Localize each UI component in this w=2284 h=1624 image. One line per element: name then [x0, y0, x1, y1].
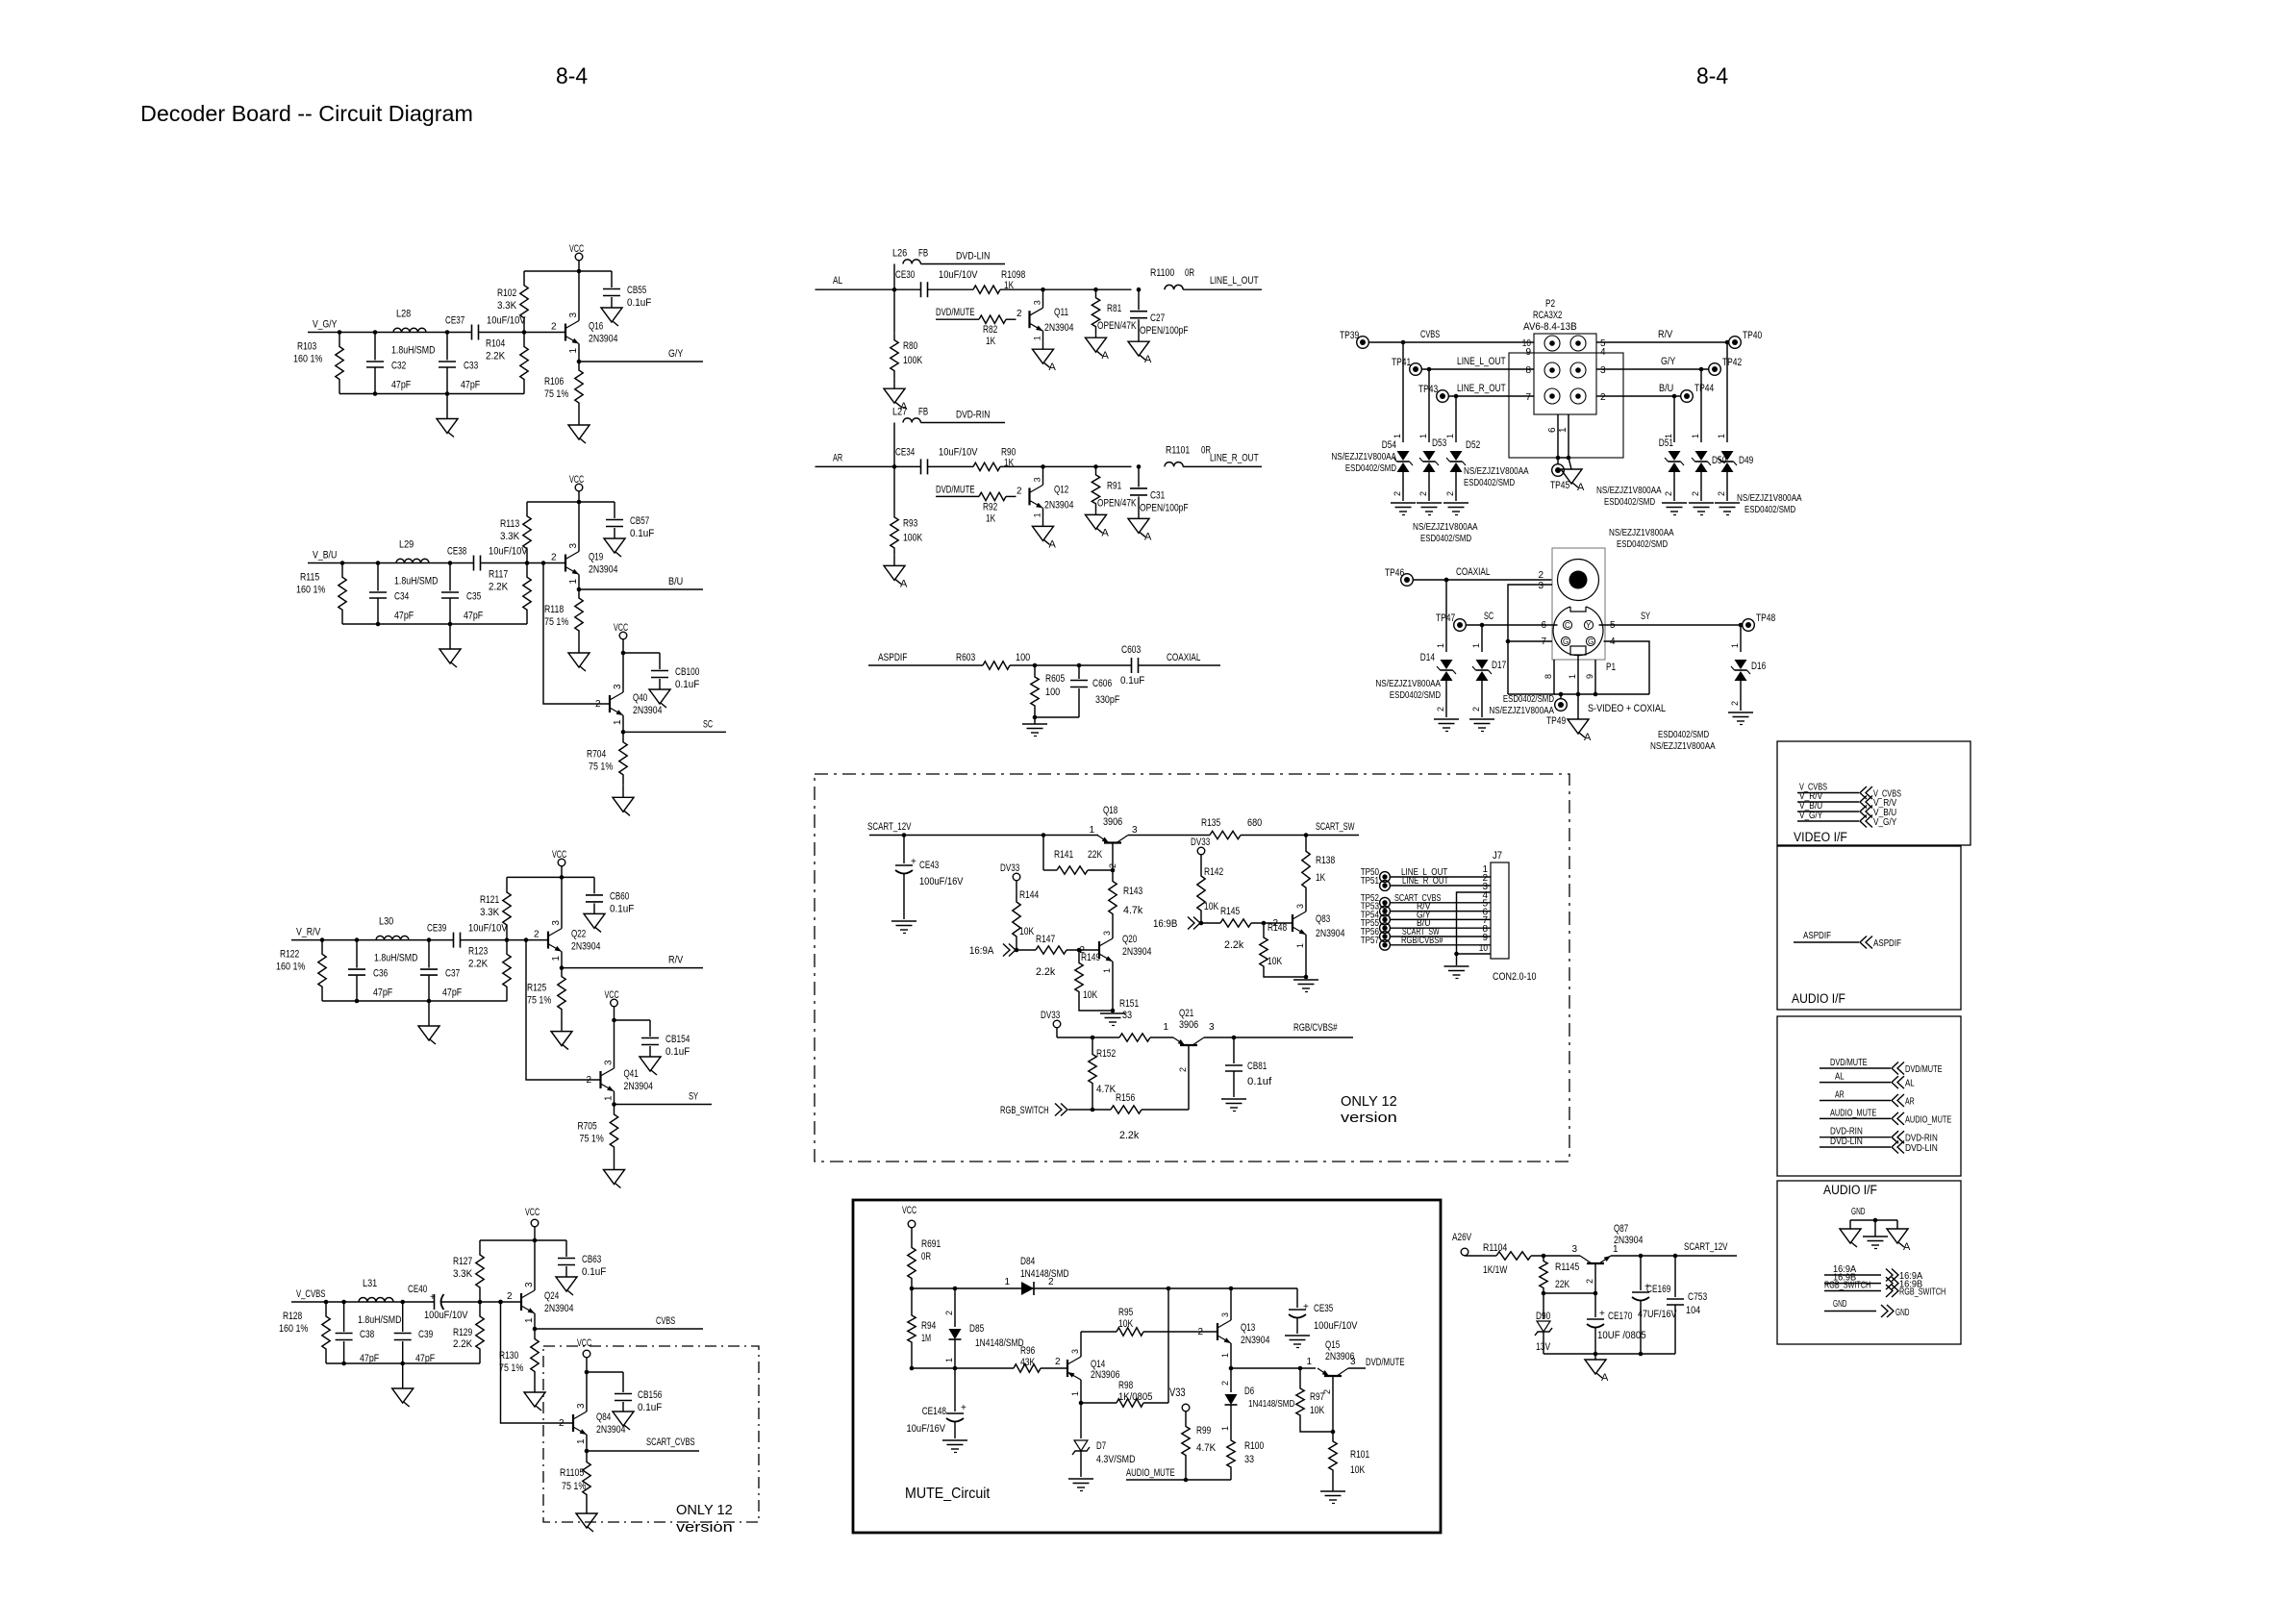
power VCC (Q24) — [525, 1207, 540, 1240]
svg-text:1K/0805: 1K/0805 — [1118, 1391, 1152, 1403]
svg-text:47UF/16V: 47UF/16V — [1638, 1309, 1677, 1320]
svg-text:CE35: CE35 — [1314, 1303, 1333, 1314]
svg-text:A: A — [1049, 538, 1057, 550]
node DVD/MUTE (MUTE out) — [1348, 1357, 1405, 1368]
svg-text:ESD0402/SMD: ESD0402/SMD — [1617, 538, 1668, 550]
box AUDIO I/F (2) — [1777, 1016, 1961, 1176]
svg-text:D50: D50 — [1712, 455, 1726, 466]
svg-text:2N3904: 2N3904 — [1614, 1235, 1643, 1246]
svg-text:CE43: CE43 — [919, 860, 939, 871]
TVS diode D52 — [1443, 394, 1529, 515]
svg-text:2N3904: 2N3904 — [1316, 928, 1344, 939]
svg-text:NS/EZJZ1V800AA: NS/EZJZ1V800AA — [1596, 485, 1662, 496]
svg-text:2: 2 — [1055, 1357, 1061, 1367]
svg-text:C35: C35 — [466, 591, 481, 603]
svg-text:1: 1 — [1306, 1357, 1312, 1367]
svg-text:R106: R106 — [544, 376, 564, 387]
svg-text:2: 2 — [595, 699, 601, 710]
svg-text:R127: R127 — [453, 1256, 472, 1267]
wire VCC rail — [480, 1238, 566, 1243]
svg-text:R130: R130 — [499, 1350, 518, 1362]
resistor R705 — [578, 1105, 618, 1158]
inductor L30 — [374, 916, 418, 964]
port DVD/MUTE — [1820, 1057, 1943, 1075]
ground (Q41 emitter) — [604, 1158, 625, 1188]
svg-text:C31: C31 — [1150, 489, 1165, 501]
diode D84 1N4148/SMD — [1004, 1256, 1068, 1295]
svg-text:R152: R152 — [1096, 1048, 1116, 1060]
svg-text:R149: R149 — [1081, 952, 1100, 963]
svg-text:C753: C753 — [1688, 1291, 1707, 1303]
label ESD0402/SMD (D17) — [1489, 693, 1554, 716]
resistor R156 2.2k — [1111, 1092, 1189, 1141]
ground (analog A) — [1887, 1220, 1911, 1253]
resistor R149 10K — [1075, 950, 1113, 1011]
capacitor C39 — [394, 1302, 436, 1364]
svg-text:C603: C603 — [1121, 644, 1141, 656]
wire base tap to Q41 — [524, 937, 601, 1080]
svg-text:4.7K: 4.7K — [1096, 1084, 1117, 1095]
resistor R147 2.2k — [1036, 934, 1099, 978]
resistor R142 10K — [1197, 863, 1223, 923]
text ONLY 12 version — [676, 1502, 733, 1536]
svg-text:Q16: Q16 — [589, 321, 603, 333]
svg-text:A: A — [900, 578, 908, 589]
ground (SPDIF) — [1022, 717, 1047, 737]
testpoint TP51 / node LINE_R_OUT — [1361, 875, 1491, 890]
ground (regulator) — [1585, 1354, 1609, 1384]
svg-text:1: 1 — [568, 579, 579, 585]
svg-text:Q24: Q24 — [544, 1290, 559, 1302]
svg-text:A: A — [1102, 350, 1110, 362]
svg-text:A: A — [1584, 732, 1592, 743]
svg-text:1: 1 — [1393, 434, 1402, 438]
svg-text:R145: R145 — [1220, 906, 1240, 917]
ground (emitter) — [524, 1382, 545, 1411]
svg-text:47pF: 47pF — [464, 611, 483, 622]
svg-text:D16: D16 — [1751, 661, 1766, 672]
svg-text:V_CVBS: V_CVBS — [296, 1288, 325, 1300]
svg-text:2: 2 — [1445, 491, 1455, 496]
svg-text:DV33: DV33 — [1041, 1010, 1060, 1021]
svg-text:CB60: CB60 — [610, 890, 629, 902]
node AL — [816, 275, 921, 291]
svg-text:2N3904: 2N3904 — [589, 564, 617, 576]
port DVD-RIN — [1820, 1126, 1938, 1144]
svg-text:R129: R129 — [453, 1327, 472, 1338]
page number right — [1696, 63, 1728, 89]
svg-text:CB57: CB57 — [630, 515, 649, 527]
wire to base — [441, 1300, 522, 1305]
svg-text:RGB_SWITCH: RGB_SWITCH — [1824, 1280, 1870, 1291]
transistor Q22 2N3904 — [534, 877, 600, 967]
port V_G/Y — [1797, 810, 1896, 828]
svg-text:16:9A: 16:9A — [969, 945, 994, 957]
svg-text:DVD-LIN: DVD-LIN — [956, 251, 990, 262]
svg-text:C34: C34 — [394, 591, 409, 603]
svg-text:DV33: DV33 — [1191, 837, 1210, 848]
svg-text:R93: R93 — [903, 517, 917, 529]
svg-text:160 1%: 160 1% — [276, 962, 306, 973]
svg-text:GND: GND — [1895, 1307, 1910, 1318]
svg-text:MUTE_Circuit: MUTE_Circuit — [905, 1486, 991, 1502]
svg-text:R141: R141 — [1054, 849, 1073, 861]
label S-VIDEO + COXIAL — [1588, 703, 1666, 714]
svg-text:TP40: TP40 — [1743, 330, 1762, 341]
svg-text:RGB_SWITCH: RGB_SWITCH — [1000, 1105, 1049, 1116]
resistor R91 OPEN/47K — [1092, 464, 1137, 512]
svg-text:COAXIAL: COAXIAL — [1456, 566, 1490, 578]
svg-text:0.1uF: 0.1uF — [582, 1266, 607, 1278]
svg-text:C37: C37 — [445, 968, 460, 980]
svg-text:2: 2 — [1197, 1327, 1203, 1337]
ground (Q83 emitter) — [1293, 975, 1318, 992]
svg-text:2: 2 — [559, 1418, 565, 1429]
svg-text:CE30: CE30 — [895, 269, 915, 281]
power VCC (Q84) — [577, 1337, 591, 1372]
testpoint TP43 / node LINE_R_OUT — [1418, 383, 1534, 402]
svg-text:2: 2 — [1664, 491, 1673, 496]
svg-text:C36: C36 — [373, 968, 388, 980]
transistor Q19 2N3904 — [551, 502, 617, 589]
power V33 — [1169, 1386, 1190, 1425]
testpoint TP55 / node B/U — [1361, 917, 1491, 933]
TVS diode D53 — [1417, 367, 1446, 515]
svg-text:4.7k: 4.7k — [1123, 905, 1143, 916]
svg-text:DVD-RIN: DVD-RIN — [956, 410, 990, 421]
svg-text:DV33: DV33 — [1000, 862, 1019, 874]
svg-text:2N3904: 2N3904 — [571, 941, 600, 953]
transistor Q12 2N3904 — [1030, 464, 1074, 526]
resistor R82 (base) — [936, 307, 1022, 347]
svg-text:R143: R143 — [1123, 886, 1142, 897]
svg-text:1: 1 — [568, 348, 579, 354]
svg-text:R94: R94 — [921, 1320, 936, 1332]
node DVD-L — [956, 251, 990, 262]
svg-text:A26V: A26V — [1452, 1232, 1472, 1243]
ground (R101) — [1320, 1491, 1345, 1504]
pin 6 / pin 1 stems of P2 — [1547, 414, 1570, 460]
svg-text:CE169: CE169 — [1646, 1284, 1670, 1295]
box AUDIO I/F (3) — [1777, 1181, 1961, 1344]
transistor Q13 2N3904 — [1197, 1288, 1269, 1368]
resistor R123 — [468, 940, 511, 1001]
capacitor CB81 0.1uf — [1221, 1037, 1272, 1112]
ground (Q12 emitter) — [1033, 526, 1057, 550]
svg-text:680: 680 — [1247, 817, 1262, 829]
svg-text:Q15: Q15 — [1325, 1339, 1340, 1351]
capacitor CE34 (series) — [895, 446, 978, 474]
resistor R93 100K — [891, 466, 923, 565]
svg-text:A: A — [1577, 482, 1585, 493]
svg-text:100uF/16V: 100uF/16V — [919, 876, 964, 887]
power DV33 (R142) — [1191, 837, 1210, 863]
TVS diode D50 — [1689, 367, 1726, 515]
label NS/EZJZ1V800AA (D49) — [1737, 492, 1802, 515]
testpoint TP41 / node LINE_L_OUT — [1392, 356, 1534, 375]
svg-text:1: 1 — [1558, 427, 1569, 433]
wire Q18 collector to SCART_SW — [1128, 835, 1210, 837]
svg-text:3: 3 — [576, 1403, 587, 1409]
svg-text:47pF: 47pF — [415, 1353, 435, 1364]
svg-text:7: 7 — [1525, 392, 1531, 403]
svg-text:R81: R81 — [1107, 303, 1121, 314]
node V_CVBS — [296, 1288, 325, 1300]
transistor Q87 2N3904 — [1571, 1223, 1643, 1284]
inductor L31 — [358, 1278, 402, 1326]
svg-text:0.1uf: 0.1uf — [1247, 1076, 1272, 1087]
resistor R104 — [486, 333, 528, 394]
svg-text:R123: R123 — [468, 946, 488, 958]
svg-text:16:9B: 16:9B — [1153, 918, 1177, 930]
svg-text:75 1%: 75 1% — [544, 388, 568, 400]
svg-text:RGB/CVBS#: RGB/CVBS# — [1401, 935, 1443, 946]
capacitor C603 0.1uF (series) — [1120, 644, 1145, 687]
resistor R152 4.7K — [1089, 1037, 1117, 1110]
svg-text:A: A — [1903, 1241, 1911, 1253]
svg-text:3: 3 — [1209, 1022, 1215, 1033]
svg-text:SY: SY — [689, 1091, 699, 1103]
capacitor C35 — [441, 563, 483, 625]
resistor R138 1K — [1302, 836, 1335, 905]
wire J7 pin3 to ground — [1457, 892, 1492, 954]
testpoint TP45 — [1550, 458, 1569, 491]
wire Q21 base — [1188, 1046, 1190, 1111]
svg-text:2: 2 — [1691, 491, 1700, 496]
ground (filter) — [392, 1363, 414, 1407]
svg-text:0.1uF: 0.1uF — [675, 679, 700, 690]
svg-text:R144: R144 — [1019, 889, 1039, 901]
testpoint TP54 / node G/Y — [1361, 909, 1491, 924]
svg-text:1: 1 — [1220, 1426, 1230, 1431]
resistor R106 — [544, 362, 583, 412]
resistor (Q21 emitter series) — [1119, 1034, 1173, 1041]
svg-text:R1105: R1105 — [560, 1467, 584, 1479]
node B/U — [577, 576, 703, 591]
svg-text:2: 2 — [1717, 491, 1726, 496]
svg-text:10K: 10K — [1019, 926, 1035, 937]
svg-text:L26: L26 — [892, 248, 907, 260]
resistor R127 — [453, 1240, 484, 1302]
capacitor CB100 — [621, 651, 700, 708]
svg-text:1: 1 — [1418, 434, 1428, 438]
svg-text:R102: R102 — [497, 287, 516, 299]
svg-text:1K: 1K — [986, 336, 996, 347]
capacitor CE43 100uF/16V — [891, 836, 964, 934]
svg-text:A: A — [1144, 354, 1152, 365]
transistor Q20 2N3904 — [1079, 925, 1151, 1011]
text ONLY 12 version (center) — [1341, 1093, 1397, 1126]
svg-text:2.2K: 2.2K — [468, 959, 489, 970]
svg-text:8: 8 — [1544, 674, 1553, 679]
svg-text:Decoder Board -- Circuit Diagr: Decoder Board -- Circuit Diagram — [140, 101, 473, 126]
svg-text:D7: D7 — [1096, 1440, 1106, 1452]
svg-text:ESD0402/SMD: ESD0402/SMD — [1390, 689, 1441, 701]
capacitor CE38 (series) — [447, 546, 528, 571]
ground (J7) — [1444, 966, 1469, 979]
svg-text:3906: 3906 — [1103, 816, 1122, 828]
svg-text:0.1uF: 0.1uF — [627, 297, 652, 309]
svg-text:R121: R121 — [480, 894, 499, 906]
svg-text:GND: GND — [1833, 1298, 1847, 1310]
ground (Q40 emitter) — [613, 785, 634, 815]
capacitor CB63 — [556, 1240, 607, 1295]
svg-text:AR: AR — [1905, 1096, 1915, 1108]
resistor R1105 — [560, 1451, 590, 1506]
svg-text:2: 2 — [1178, 1067, 1188, 1072]
node LINE_R_OUT — [1210, 452, 1259, 463]
port 16:9A — [969, 944, 1036, 958]
svg-text:R125: R125 — [527, 983, 546, 994]
svg-text:3: 3 — [1070, 1349, 1080, 1354]
capacitor C38 — [336, 1302, 380, 1364]
port V_R/V — [1797, 790, 1896, 809]
port AUDIO_MUTE — [1820, 1107, 1951, 1125]
svg-text:1: 1 — [1471, 643, 1481, 648]
svg-text:SCART_CVBS: SCART_CVBS — [646, 1437, 695, 1448]
connector J7 CON2.0-10 — [1479, 850, 1537, 983]
svg-text:2N3904: 2N3904 — [1122, 946, 1151, 958]
svg-text:100: 100 — [1045, 687, 1060, 698]
svg-text:D51: D51 — [1659, 437, 1673, 449]
svg-text:2: 2 — [1322, 1389, 1332, 1394]
svg-text:SC: SC — [703, 718, 713, 730]
resistor R151 33 / ground — [1100, 998, 1139, 1026]
power VCC (Q22) — [552, 849, 566, 877]
svg-text:OPEN/100pF: OPEN/100pF — [1140, 325, 1189, 337]
svg-text:VCC: VCC — [902, 1205, 916, 1216]
svg-text:75 1%: 75 1% — [527, 995, 551, 1007]
resistor R1098 — [928, 269, 1132, 293]
resistor R135 680 — [1201, 817, 1359, 839]
svg-text:1: 1 — [1033, 512, 1042, 517]
resistor R80 100K — [891, 289, 923, 388]
ground (Q84 emitter) — [576, 1506, 597, 1532]
svg-text:3: 3 — [568, 312, 579, 318]
svg-text:SCART_SW: SCART_SW — [1316, 821, 1355, 833]
wire bottom rail — [339, 391, 524, 396]
resistor R603 100 — [956, 652, 1132, 669]
svg-text:0R: 0R — [921, 1251, 931, 1262]
power A26V — [1452, 1232, 1483, 1256]
svg-text:3906: 3906 — [1179, 1019, 1198, 1031]
svg-text:0.1uF: 0.1uF — [610, 903, 635, 914]
svg-text:C27: C27 — [1150, 312, 1165, 324]
ground (chassis) — [1840, 1220, 1861, 1247]
svg-text:1: 1 — [1717, 434, 1726, 438]
svg-text:2: 2 — [1585, 1279, 1594, 1284]
svg-text:D49: D49 — [1739, 455, 1753, 466]
wire to base — [479, 330, 566, 335]
svg-text:R96: R96 — [1020, 1345, 1035, 1357]
wire base tap to Q84 — [498, 1300, 573, 1423]
label NS/EZJZ1V800AA (D50) — [1609, 527, 1674, 550]
wire SPDIF bottom — [1033, 715, 1079, 720]
svg-text:13V: 13V — [1536, 1341, 1551, 1353]
power DV33 (R144) — [1000, 862, 1020, 888]
wire to base — [461, 937, 549, 942]
svg-text:3: 3 — [1033, 300, 1042, 305]
svg-text:D6: D6 — [1244, 1386, 1254, 1397]
svg-text:2N3904: 2N3904 — [1044, 499, 1073, 511]
wire VCC rail — [507, 875, 594, 880]
svg-text:2.2K: 2.2K — [453, 1338, 473, 1350]
svg-text:1: 1 — [1102, 968, 1112, 973]
svg-text:104: 104 — [1686, 1305, 1700, 1316]
svg-text:1.8uH/SMD: 1.8uH/SMD — [358, 1314, 402, 1326]
TVS diode D54 — [1331, 340, 1416, 515]
svg-text:75 1%: 75 1% — [562, 1481, 586, 1492]
resistor R118 — [544, 589, 583, 639]
svg-text:Q40: Q40 — [633, 692, 647, 704]
svg-text:4.3V/SMD: 4.3V/SMD — [1096, 1454, 1136, 1465]
svg-text:3: 3 — [568, 543, 579, 549]
svg-text:DVD/MUTE: DVD/MUTE — [1905, 1063, 1943, 1075]
svg-text:10uF/10V: 10uF/10V — [468, 923, 508, 935]
resistor R117 — [489, 563, 531, 625]
svg-text:+: + — [911, 857, 916, 867]
svg-text:R1100: R1100 — [1150, 267, 1174, 279]
node V_G/Y — [313, 319, 338, 331]
svg-text:ASPDIF: ASPDIF — [878, 652, 908, 663]
node COAXIAL — [1139, 652, 1221, 665]
svg-text:Q11: Q11 — [1054, 307, 1068, 318]
svg-text:1.8uH/SMD: 1.8uH/SMD — [394, 576, 439, 587]
svg-text:0.1uF: 0.1uF — [638, 1402, 663, 1413]
capacitor C37 — [420, 940, 462, 1001]
pin 4 wire of P1 — [1604, 637, 1650, 694]
power VCC (Q40) — [614, 622, 660, 653]
svg-text:8-4: 8-4 — [1696, 63, 1728, 89]
svg-text:G/Y: G/Y — [1661, 356, 1676, 367]
ground (P2 shield) — [1561, 458, 1585, 493]
box VIDEO I/F — [1777, 741, 1970, 845]
wire VCC rail (MUTE) — [910, 1287, 1297, 1291]
svg-text:TP49: TP49 — [1546, 715, 1566, 727]
svg-text:D14: D14 — [1420, 652, 1435, 663]
svg-text:L30: L30 — [379, 916, 393, 928]
svg-text:R118: R118 — [544, 604, 564, 615]
label NS/EZJZ1V800AA (D51) — [1596, 485, 1662, 508]
ground (D7) — [1068, 1479, 1093, 1491]
svg-text:VCC: VCC — [577, 1337, 591, 1349]
svg-text:R605: R605 — [1045, 673, 1065, 685]
capacitor CE30 (series) — [895, 269, 978, 297]
svg-text:1: 1 — [551, 956, 562, 962]
svg-text:ESD0402/SMD: ESD0402/SMD — [1658, 729, 1709, 740]
svg-text:TP47: TP47 — [1436, 612, 1455, 624]
svg-text:10uF/10V: 10uF/10V — [487, 315, 526, 327]
svg-text:R113: R113 — [500, 518, 519, 530]
svg-text:ONLY 12: ONLY 12 — [1341, 1093, 1397, 1110]
svg-text:TP44: TP44 — [1694, 383, 1714, 394]
svg-text:OPEN/100pF: OPEN/100pF — [1140, 502, 1189, 513]
svg-text:CB63: CB63 — [582, 1254, 601, 1265]
wire to base — [481, 561, 566, 565]
testpoint TP39 / node CVBS — [1340, 329, 1534, 348]
pin 5 / node SY wire — [1599, 611, 1744, 631]
testpoint TP57 / node RGB/CVBS# — [1361, 935, 1491, 950]
diode D90 13V (zener) — [1535, 1293, 1552, 1354]
svg-text:1M: 1M — [921, 1333, 931, 1344]
transistor Q24 2N3904 — [507, 1240, 573, 1329]
port GND — [1824, 1298, 1910, 1318]
svg-text:CE39: CE39 — [427, 923, 446, 935]
svg-text:2: 2 — [1538, 570, 1544, 581]
node GND (I/F) — [1850, 1206, 1897, 1222]
svg-text:1: 1 — [1163, 1022, 1168, 1033]
title Decoder Board -- Circuit Diagram — [140, 101, 473, 126]
